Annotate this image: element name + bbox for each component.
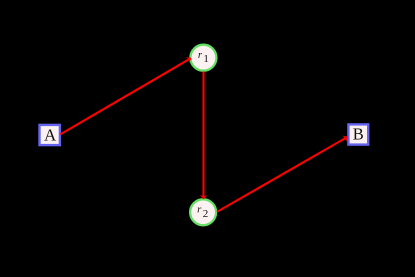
svg-text:B: B [353, 125, 364, 144]
node B [348, 124, 368, 144]
node r2 [190, 199, 216, 225]
node r1 [190, 45, 216, 71]
svg-text:1: 1 [203, 53, 209, 65]
wire edge A to r1 [60, 58, 191, 134]
wire edge r2 to B [217, 137, 348, 212]
svg-text:A: A [44, 126, 57, 145]
node A [40, 125, 60, 145]
svg-text:2: 2 [203, 208, 209, 220]
wire edge r1 to r2 [202, 72, 204, 199]
